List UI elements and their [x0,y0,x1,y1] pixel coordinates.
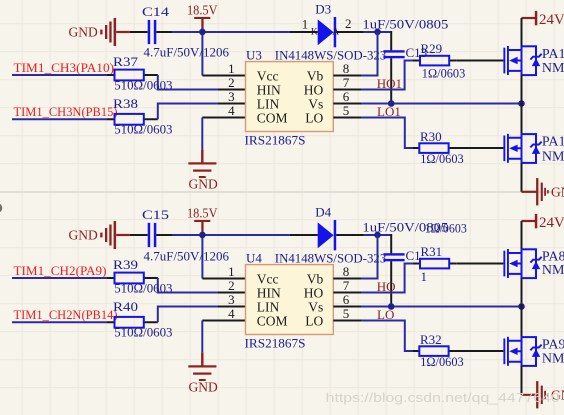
svg-text:510Ω/0603: 510Ω/0603 [114,122,172,137]
svg-text:1: 1 [302,16,309,31]
svg-text:7: 7 [343,75,350,90]
resistor R31 [413,259,456,269]
svg-text:NMOS: NMOS [542,61,564,76]
svg-text:R40: R40 [113,299,138,314]
ground symbol below U3 [188,149,216,178]
svg-text:LO: LO [305,313,323,328]
svg-text:HIN: HIN [257,82,281,97]
wire R31 to Q3 gate [456,263,503,265]
wire Vb node down to pin8 [361,32,378,76]
svg-text:8: 8 [343,264,350,279]
op-amp/driver U3 IRS21867S body [246,62,334,132]
svg-text:D3: D3 [315,1,331,16]
wire pin5 LO to R32 [361,321,413,352]
wire net TIM1_CH3N to R38 [12,118,107,120]
watermark logo circle fragment [0,203,2,213]
wire R32 to Q4 gate [456,350,503,352]
resistor R37 [107,70,158,81]
svg-text:1Ω/0603: 1Ω/0603 [422,66,466,81]
wire R37 to pin2 HIN [158,75,218,90]
svg-text:1: 1 [228,61,235,76]
resistor R38 [107,114,158,125]
wire net TIM1_CH2 to R39 [12,277,107,279]
wire pin4 COM to ground [202,117,245,119]
svg-text:D4: D4 [315,204,331,219]
svg-text:2: 2 [228,75,235,90]
svg-text:6: 6 [343,292,350,307]
svg-text:GND: GND [69,227,98,242]
wire D4 cathode to Vb node [364,234,391,236]
svg-text:NMOS: NMOS [542,263,564,278]
svg-text:PA9: PA9 [542,337,564,352]
svg-text:TIM1_CH3(PA10): TIM1_CH3(PA10) [14,61,115,75]
svg-text:24V: 24V [539,12,564,28]
junction dot at 18.5V node (bottom) [199,232,206,239]
resistor R32 [413,346,456,356]
svg-text:U4: U4 [246,250,262,265]
svg-text:R30: R30 [420,129,442,144]
transistor Q1 (high side NMOS) [503,46,541,75]
svg-text:1Ω/0603: 1Ω/0603 [420,151,464,166]
svg-text:4: 4 [228,306,235,321]
svg-text:PA10: PA10 [542,134,564,149]
wire R30 to Q2 gate [456,147,503,149]
svg-text:6: 6 [343,89,350,104]
wire R40 to pin3 LIN (U4) [158,307,218,323]
power port 24V (top) [522,11,538,25]
wire C14 to junction [156,31,172,33]
transistor Q4 (low side NMOS, bottom) [503,337,541,366]
svg-text:R39: R39 [113,257,138,272]
power port 24V (bottom) [522,214,538,228]
wire Q4 source to ground (bottom) [521,366,523,395]
wire 24V to Q1 drain [521,18,523,46]
wire R38 to pin3 LIN [158,104,218,120]
junction dot Vb node (bottom) [374,232,381,239]
junction dot C16/Vs [388,303,395,310]
svg-text:1: 1 [421,269,428,284]
svg-text:PA10: PA10 [542,47,564,62]
wire net TIM1_CH2N to R40 [12,321,107,323]
ground symbol right (top circuit) [522,178,549,205]
wire Q1 source to Vs [521,75,523,103]
svg-text:IN4148WS/SOD-323: IN4148WS/SOD-323 [275,47,387,62]
svg-text:NMOS: NMOS [542,149,564,164]
svg-text:3: 3 [228,89,235,104]
svg-text:8: 8 [343,61,350,76]
svg-text:K: K [311,28,318,38]
svg-text:TIM1_CH2(PA9): TIM1_CH2(PA9) [14,264,107,278]
capacitor C13 [383,50,404,58]
svg-text:3: 3 [228,292,235,307]
svg-text:GND: GND [189,380,218,395]
wire R29 to Q1 gate [456,60,503,62]
svg-text:HIN: HIN [257,285,281,300]
wire Vb node to C16 [390,234,392,253]
svg-text:Vs: Vs [308,96,323,111]
resistor R39 [107,273,158,284]
wire 18.5V junction down to pin1 [201,32,203,76]
svg-text:HO: HO [304,82,324,97]
wire Q2 source to ground [521,163,523,192]
resistor R30 [413,143,456,153]
svg-text:Vb: Vb [307,271,324,286]
svg-text:IRS21867S: IRS21867S [245,336,306,351]
resistor R40 [107,317,158,328]
wire pin7 HO to R31 [361,264,413,293]
svg-text:IRS21867S: IRS21867S [245,133,306,148]
transistor Q3 (high side NMOS, bottom) [503,249,541,278]
svg-text:LIN: LIN [257,96,280,111]
svg-text:COM: COM [257,110,288,125]
wire net TIM1_CH3 to R37 [12,74,107,76]
wire Vs to Q2 drain [521,104,523,135]
U4 pin stubs right [333,279,361,321]
svg-text:TIM1_CH2N(PB14): TIM1_CH2N(PB14) [14,308,118,322]
svg-text:Vb: Vb [307,68,324,83]
svg-text:4.7uF/50V/1206: 4.7uF/50V/1206 [144,44,230,59]
wire junction to D3 [202,31,289,33]
svg-text:LO: LO [305,110,323,125]
svg-text:R29: R29 [421,41,443,56]
wire pin5 LO to R30 [361,118,413,149]
svg-text:24V: 24V [539,215,564,231]
svg-text:4.7uF/50V/1206: 4.7uF/50V/1206 [144,248,230,263]
wire C16 to Vs line (bottom) [390,261,392,306]
svg-text:HO: HO [304,285,324,300]
svg-text:TIM1_CH3N(PB15): TIM1_CH3N(PB15) [14,105,118,119]
svg-text:https://blog.csdn.net/qq_44776: https://blog.csdn.net/qq_4477640 [326,390,560,405]
capacitor C16 [383,253,404,261]
svg-text:NMOS: NMOS [542,351,564,366]
svg-text:R38: R38 [113,96,138,111]
wire junction to D4 [202,234,289,236]
svg-text:COM: COM [257,313,288,328]
ground symbol right (bottom circuit) [522,381,549,408]
svg-text:Vcc: Vcc [257,271,279,286]
svg-text:7: 7 [343,278,350,293]
wire Vs line (bottom) [361,306,522,308]
wire C13 to Vs line [390,58,392,103]
svg-text:1uF/50V/0805: 1uF/50V/0805 [362,16,448,31]
wire C15 to junction [156,234,172,236]
transistor Q2 (low side NMOS) [503,134,541,163]
wire R39 to pin2 HIN (U4) [158,278,218,293]
junction dot at 18.5V node [199,29,206,36]
wire 18.5V junction down to pin1 (U4) [201,235,203,279]
wire Vs to Q4 drain (bottom) [521,307,523,338]
svg-text:R37: R37 [113,54,139,69]
resistor R29 [413,56,456,66]
svg-text:C15: C15 [142,207,169,222]
svg-text:R31: R31 [421,244,443,259]
svg-text:U3: U3 [246,47,262,62]
wire pin4 COM to ground (U4) [202,320,245,322]
junction dot C13/Vs [388,100,395,107]
wire Vs line [361,103,522,105]
svg-text:C14: C14 [142,4,170,19]
wire 24V to Q3 drain [521,221,523,249]
junction dot Vs/FET (bottom) [518,303,525,310]
svg-text:18.5V: 18.5V [187,206,218,221]
wire GND stem to C14 [130,31,148,33]
svg-text:2: 2 [345,16,352,31]
diode D4 [290,220,364,250]
capacitor C14 [148,20,157,44]
ground symbol below U4 [188,352,216,381]
svg-text:GND: GND [189,177,218,192]
svg-text:1Ω/0603: 1Ω/0603 [420,354,464,369]
junction dot Vs/FET [518,100,525,107]
svg-text:R32: R32 [420,332,442,347]
wire GND stem to C15 [130,234,148,236]
wire Vb node down to pin8 (U4) [361,235,378,279]
diode D3 [290,17,364,47]
wire D3 cathode to Vb node [364,31,391,33]
svg-text:Vcc: Vcc [257,68,279,83]
svg-text:2: 2 [228,278,235,293]
junction dot Vb node [374,29,381,36]
wire Vb node to C13 [390,31,392,50]
svg-text:4: 4 [228,103,235,118]
svg-text:C1: C1 [406,248,421,263]
svg-text:1: 1 [228,264,235,279]
svg-text:GND: GND [69,24,98,39]
svg-text:GND: GND [551,184,564,199]
driver U4 IRS21867S body [246,265,334,335]
svg-text:510Ω/0603: 510Ω/0603 [114,325,172,340]
capacitor C15 [148,223,157,247]
svg-text:5: 5 [343,103,350,118]
svg-text:IN4148WS/SOD-323: IN4148WS/SOD-323 [275,250,387,265]
svg-text:A: A [332,28,339,38]
svg-text:Vs: Vs [308,299,323,314]
wire Q3 source to Vs (bottom) [521,278,523,306]
svg-text:1Ω/0603: 1Ω/0603 [425,221,467,236]
U3 pin stubs right [333,76,361,118]
svg-text:18.5V: 18.5V [187,3,218,18]
svg-text:5: 5 [343,306,350,321]
screenshot seam line [0,191,564,193]
wire pin7 HO to R29 [361,61,413,90]
svg-text:LIN: LIN [257,299,280,314]
